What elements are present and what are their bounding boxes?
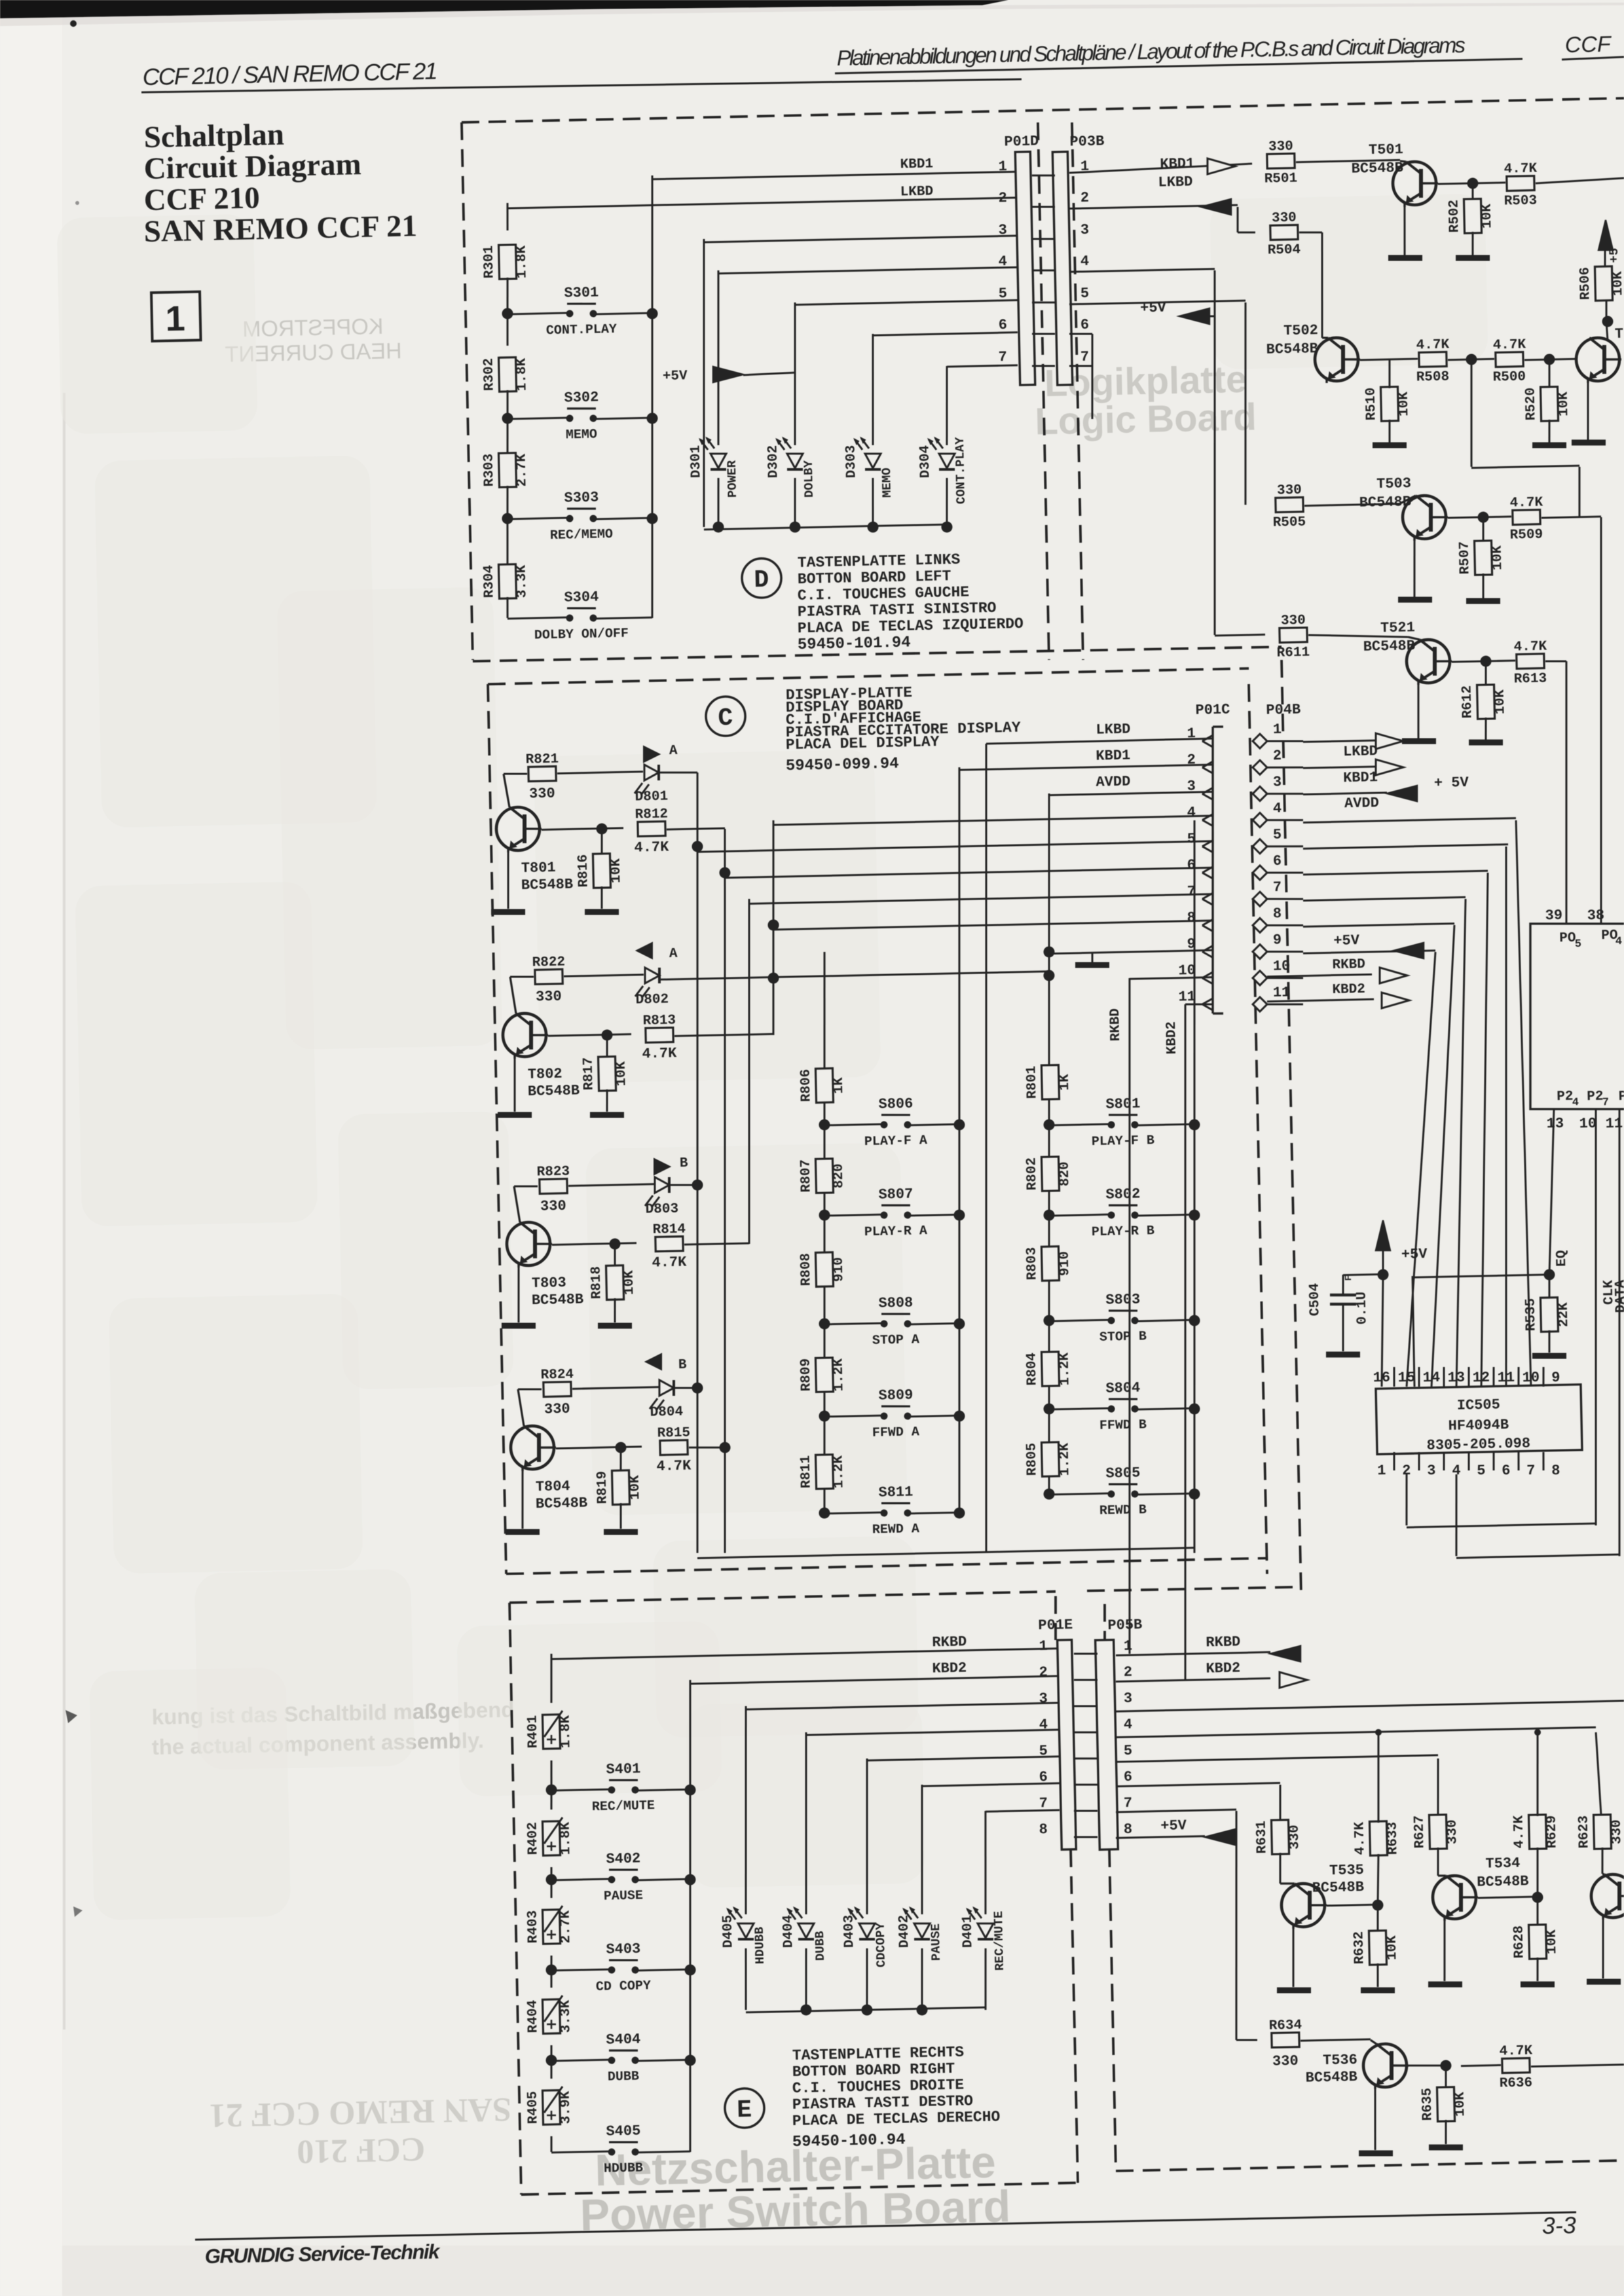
svg-text:Circuit Diagram: Circuit Diagram [143, 147, 361, 186]
svg-text:7: 7 [1080, 349, 1090, 365]
ground T803 [502, 1325, 536, 1326]
led arrow A left [637, 943, 653, 959]
wire R509 right and down to pin38 [1541, 517, 1601, 518]
wire R504 to T502 base [1299, 232, 1322, 232]
svg-text:R804: R804 [1025, 1353, 1041, 1386]
svg-text:1: 1 [998, 158, 1007, 175]
resistor R809 [815, 1358, 833, 1393]
svg-text:PLAY-F A: PLAY-F A [864, 1133, 927, 1150]
svg-text:S804: S804 [1105, 1379, 1140, 1396]
svg-text:DATA: DATA [1613, 1279, 1624, 1313]
node R510 junction [1466, 354, 1477, 365]
svg-text:LKBD: LKBD [1343, 743, 1378, 760]
wire R611 to T521 [1308, 633, 1408, 639]
svg-text:4.7K: 4.7K [634, 839, 669, 856]
svg-text:1.8K: 1.8K [515, 245, 530, 278]
svg-text:7: 7 [1124, 1795, 1133, 1812]
wire bottom bus C [697, 1548, 1194, 1558]
svg-text:R816: R816 [576, 854, 592, 888]
wire R634 to T536 [1301, 2039, 1371, 2041]
svg-text:330: 330 [1272, 2053, 1299, 2070]
resistor R628 [1537, 1897, 1538, 1926]
wire T503 emitter [1413, 537, 1416, 597]
svg-text:CONT.PLAY: CONT.PLAY [953, 437, 969, 505]
switch S806 [824, 1124, 881, 1125]
svg-text:R818: R818 [589, 1266, 604, 1300]
wire column v1144 [742, 899, 756, 1244]
resistor R632 [1377, 1905, 1378, 1932]
svg-text:4.7K: 4.7K [656, 1457, 692, 1474]
node S402 left [545, 1874, 557, 1885]
diode D405 [741, 1706, 750, 1914]
svg-text:8: 8 [1187, 909, 1196, 926]
wire T804 emitter [521, 1468, 524, 1529]
header rule right [835, 59, 1522, 73]
svg-text:R401: R401 [525, 1715, 541, 1749]
svg-text:4: 4 [998, 253, 1007, 270]
svg-text:MEMO: MEMO [566, 428, 597, 443]
wire pin7 [1069, 365, 1092, 366]
svg-text:D405: D405 [720, 1915, 736, 1948]
power +5V arrow IC505 [1375, 1220, 1390, 1251]
node S403 left [545, 1964, 557, 1975]
diode D303 [872, 478, 874, 527]
svg-text:10K: 10K [1545, 1929, 1560, 1955]
svg-text:R803: R803 [1024, 1247, 1040, 1281]
svg-text:T5: T5 [1615, 325, 1624, 342]
svg-text:T503: T503 [1376, 475, 1411, 492]
ground R818 [598, 1325, 632, 1326]
resistor R504 [1270, 225, 1298, 240]
node +5V junction [1377, 1269, 1388, 1280]
svg-text:DOLBY: DOLBY [802, 460, 817, 498]
resistor R507 [1483, 517, 1484, 542]
wire R503 to edge [1536, 178, 1624, 183]
svg-text:BC548B: BC548B [536, 1495, 588, 1512]
resistor R404 [551, 1970, 551, 1988]
header rule left [141, 74, 1022, 98]
svg-text:R805: R805 [1024, 1443, 1040, 1476]
svg-text:5: 5 [1039, 1743, 1048, 1759]
wire matrix A left bus [813, 952, 836, 1513]
svg-text:4: 4 [1273, 800, 1282, 816]
svg-text:LKBD: LKBD [900, 185, 934, 200]
svg-text:10: 10 [1522, 1370, 1540, 1387]
svg-text:S808: S808 [878, 1294, 913, 1311]
ghost pcb blobs [94, 456, 377, 828]
svg-text:59450-099.94: 59450-099.94 [786, 755, 899, 775]
ground R632 [1361, 1990, 1395, 1991]
svg-text:EQ: EQ [1555, 1250, 1570, 1267]
svg-text:R504: R504 [1267, 242, 1301, 258]
svg-text:HF4094B: HF4094B [1448, 1417, 1509, 1434]
wire P05B row8 +5V [1116, 1836, 1205, 1838]
svg-text:KBD2: KBD2 [932, 1660, 967, 1677]
resistor R818 [614, 1244, 615, 1267]
svg-text:FFWD B: FFWD B [1099, 1417, 1147, 1434]
svg-text:S809: S809 [878, 1387, 913, 1404]
wire D302 to pin5 [795, 300, 1018, 304]
resistor R801 [1041, 1065, 1059, 1100]
wire row7 [749, 894, 1213, 904]
wire T500 collector [1606, 321, 1608, 340]
svg-text:KOPFSTROM: KOPFSTROM [242, 314, 384, 342]
transistor T536 [1363, 2043, 1407, 2087]
svg-text:C: C [718, 704, 733, 733]
svg-text:2: 2 [1273, 748, 1282, 764]
svg-text:D802: D802 [635, 992, 669, 1008]
wire D301 to pin4 [718, 267, 1018, 274]
svg-text:S302: S302 [564, 389, 599, 406]
svg-text:5: 5 [1477, 1463, 1486, 1479]
node LKBD left bus wire [507, 203, 508, 230]
ground R612 [1469, 742, 1503, 743]
wire row11 KBD2 [1185, 1004, 1213, 1005]
svg-text:8: 8 [1551, 1463, 1560, 1479]
wire R301 to S301 [507, 278, 508, 314]
wire pin3 horizontal [704, 236, 1018, 242]
ground T500 [1572, 442, 1606, 443]
svg-text:10K: 10K [1490, 545, 1506, 571]
wire T521 emitter [1417, 681, 1420, 738]
svg-text:+5V: +5V [1333, 932, 1360, 949]
node S403 right [684, 1964, 695, 1975]
svg-text:R403: R403 [525, 1910, 541, 1944]
svg-text:BC548B: BC548B [1312, 1879, 1364, 1897]
svg-text:7: 7 [1526, 1463, 1536, 1479]
svg-text:1: 1 [1124, 1638, 1133, 1654]
node junction S301 right [646, 308, 657, 319]
transistor T801 [504, 774, 509, 807]
svg-text:10: 10 [1273, 958, 1291, 975]
svg-text:1: 1 [1039, 1638, 1048, 1654]
svg-text:5: 5 [1080, 285, 1090, 302]
svg-text:R507: R507 [1458, 541, 1473, 575]
wire T536 collector [1409, 2065, 1446, 2066]
svg-text:R633: R633 [1385, 1822, 1401, 1855]
wire matrix B right bus [1179, 820, 1210, 1553]
svg-text:1: 1 [1377, 1463, 1386, 1479]
ground T801 [491, 911, 525, 913]
svg-text:D403: D403 [841, 1915, 857, 1948]
wire P05B row3 [1116, 1701, 1624, 1711]
transistor T533 [1591, 1874, 1624, 1918]
node R818 top [609, 1238, 620, 1249]
resistor R405 [551, 2060, 551, 2079]
resistor R817 [606, 1035, 607, 1058]
wire pin2 LKBD to R504 [1069, 205, 1238, 208]
svg-text:9: 9 [1273, 932, 1282, 948]
svg-text:B: B [680, 1156, 688, 1171]
resistor R824 [518, 1389, 542, 1390]
svg-text:7: 7 [1039, 1795, 1048, 1812]
svg-text:RKBD: RKBD [932, 1633, 967, 1650]
svg-text:T804: T804 [536, 1478, 570, 1495]
svg-text:HDUBB: HDUBB [604, 2160, 643, 2176]
svg-text:330: 330 [1272, 211, 1297, 227]
resistor R535 [1549, 1275, 1550, 1299]
wire T533 emitter [1602, 1916, 1604, 1978]
arrow AVDD +5V [1387, 786, 1418, 802]
wire row9 [1049, 950, 1213, 953]
svg-text:4: 4 [1572, 1097, 1579, 1109]
resistor R816 [601, 829, 602, 855]
svg-text:11: 11 [1178, 989, 1196, 1006]
svg-text:4: 4 [1039, 1717, 1048, 1733]
svg-text:3: 3 [1273, 774, 1282, 790]
svg-text:2: 2 [1124, 1664, 1133, 1681]
arrow KBD2 right [1280, 1671, 1308, 1688]
svg-text:D304: D304 [917, 445, 933, 479]
wire row5 [697, 841, 1213, 852]
node junction S302 left [502, 412, 513, 424]
resistor R819 [620, 1448, 621, 1472]
wire pin5 to R505 [1069, 301, 1246, 304]
wire E led bottom bus [746, 2007, 986, 2013]
wire P05B row1 RKBD out [1116, 1652, 1270, 1656]
wire R301-R302 [507, 314, 508, 346]
ground T536 [1359, 2153, 1393, 2154]
svg-text:P05B: P05B [1107, 1616, 1142, 1633]
svg-text:BC548B: BC548B [528, 1082, 580, 1100]
svg-text:4: 4 [1080, 253, 1090, 270]
svg-text:R503: R503 [1504, 193, 1537, 209]
diode D802 [564, 975, 644, 977]
svg-text:38: 38 [1587, 907, 1604, 924]
svg-text:R505: R505 [1273, 515, 1306, 530]
svg-text:R813: R813 [642, 1013, 676, 1029]
resistor R302 [499, 357, 517, 392]
svg-text:910: 910 [1058, 1251, 1073, 1276]
svg-text:P04B: P04B [1266, 701, 1301, 718]
svg-text:CDCOPY: CDCOPY [874, 1922, 889, 1967]
dashed logic board bottom [1109, 1850, 1116, 2171]
svg-text:DUBB: DUBB [813, 1931, 828, 1961]
svg-text:59450-101.94: 59450-101.94 [798, 634, 911, 654]
scanner black edge top [0, 0, 1008, 18]
svg-text:10K: 10K [1385, 1935, 1401, 1961]
switch S803 [1049, 1320, 1109, 1321]
resistor R805 [1041, 1442, 1059, 1477]
svg-text:9: 9 [1551, 1370, 1560, 1386]
wire P05B row5 rail [1116, 1755, 1438, 1762]
resistor R508 [1419, 352, 1447, 367]
svg-text:R612: R612 [1460, 685, 1476, 719]
wire E led feeds [746, 1703, 1060, 1709]
svg-text:R303: R303 [481, 454, 497, 487]
svg-text:S404: S404 [606, 2031, 640, 2048]
resistor R803 [1041, 1247, 1059, 1281]
wire CLK [1587, 1109, 1605, 1525]
resistor R806 [815, 1068, 833, 1103]
wire T501 out node [1438, 183, 1505, 184]
svg-text:D804: D804 [650, 1405, 683, 1421]
svg-text:D303: D303 [844, 445, 860, 479]
svg-text:330: 330 [1445, 1819, 1461, 1844]
svg-text:S301: S301 [564, 284, 599, 301]
node junction S302 right [646, 412, 657, 424]
switch S807 [824, 1214, 881, 1216]
switch S801 [1049, 1124, 1109, 1125]
resistor R509 [1513, 510, 1540, 525]
svg-text:1.2K: 1.2K [831, 1455, 847, 1488]
svg-text:6: 6 [998, 317, 1007, 333]
switch S809 [824, 1415, 881, 1417]
svg-text:4.7K: 4.7K [1509, 496, 1543, 511]
svg-text:11: 11 [1605, 1116, 1623, 1133]
svg-text:59450-100.94: 59450-100.94 [792, 2131, 906, 2151]
transistor T501 [1392, 161, 1436, 205]
node T500 collector [1602, 316, 1613, 327]
svg-text:R500: R500 [1492, 370, 1526, 386]
svg-text:REC/MUTE: REC/MUTE [592, 1798, 655, 1815]
resistor R503 [1507, 176, 1534, 191]
svg-text:R812: R812 [635, 807, 668, 822]
svg-text:PLAY-R B: PLAY-R B [1092, 1224, 1154, 1240]
svg-text:1.2K: 1.2K [1058, 1442, 1073, 1476]
wire T802 emitter [513, 1055, 516, 1112]
wire R500 to T500 [1524, 359, 1576, 360]
svg-text:PLACA DEL DISPLAY: PLACA DEL DISPLAY [786, 733, 940, 754]
svg-text:5: 5 [1124, 1743, 1133, 1759]
svg-text:4.7K: 4.7K [1352, 1821, 1368, 1855]
led arrow A up [643, 746, 659, 762]
svg-text:11: 11 [1497, 1370, 1515, 1387]
svg-text:3: 3 [1080, 222, 1090, 238]
svg-text:F: F [1344, 1275, 1354, 1281]
svg-text:D404: D404 [781, 1915, 797, 1948]
wire column v1181 [769, 820, 778, 1035]
node R817 top [601, 1029, 612, 1040]
svg-text:REWD A: REWD A [872, 1522, 919, 1538]
wire pin3 down leg [698, 239, 710, 527]
svg-text:AVDD: AVDD [1344, 795, 1379, 812]
svg-text:4: 4 [1124, 1717, 1133, 1733]
svg-text:R302: R302 [482, 358, 498, 392]
svg-text:S405: S405 [606, 2123, 640, 2140]
wire R633 top to rail [1376, 1732, 1380, 1823]
connector P03B [1052, 152, 1072, 385]
svg-text:7: 7 [1602, 1097, 1610, 1109]
wire P05B row4 rail [1116, 1727, 1596, 1737]
diode D804 [572, 1387, 659, 1389]
resistor R823 [514, 1186, 538, 1186]
wire pin4 +5V feed [1069, 269, 1215, 272]
svg-text:10K: 10K [1480, 204, 1496, 229]
svg-text:14: 14 [1422, 1370, 1440, 1387]
svg-text:T534: T534 [1485, 1855, 1520, 1872]
svg-text:C504: C504 [1307, 1283, 1323, 1317]
ground pin10 stub [1091, 952, 1094, 962]
svg-text:3: 3 [998, 222, 1007, 238]
node EQ junction [1543, 1269, 1555, 1280]
svg-text:330: 330 [1268, 139, 1293, 155]
switch S301 [507, 313, 567, 314]
svg-text:P: P [1618, 1089, 1624, 1104]
wire pin6 down [1069, 333, 1092, 334]
svg-text:6: 6 [1187, 857, 1196, 873]
switch S808 [824, 1323, 881, 1324]
resistor R506 [1606, 301, 1606, 321]
svg-text:10K: 10K [628, 1475, 644, 1501]
transistor T502 [1314, 337, 1358, 381]
ground T804 [506, 1531, 540, 1533]
wire R627 to T534 base [1437, 1848, 1439, 1876]
dashed board D box [462, 122, 473, 660]
wire T536 emitter [1374, 2086, 1376, 2150]
svg-text:2: 2 [1080, 190, 1090, 206]
svg-text:4: 4 [1615, 936, 1623, 948]
transistor T804 [518, 1389, 524, 1426]
node S404 left [545, 2054, 557, 2066]
svg-text:T501: T501 [1369, 141, 1403, 158]
wire T802 base row [548, 1034, 631, 1036]
svg-text:BC548B: BC548B [1305, 2069, 1357, 2086]
dashed logic board left lower [1282, 660, 1301, 1596]
ghost bleedthrough CCF210 rotated [209, 2090, 513, 2172]
svg-text:330: 330 [544, 1401, 570, 1418]
wire T535 emitter [1292, 1925, 1295, 1987]
svg-text:S803: S803 [1105, 1291, 1140, 1308]
svg-text:2.7K: 2.7K [558, 1910, 574, 1943]
svg-text:PAUSE: PAUSE [929, 1923, 944, 1961]
resistor R520 [1549, 359, 1550, 388]
node T535 out [1372, 1899, 1383, 1910]
wire R508 to R500 [1448, 359, 1494, 359]
svg-text:R806: R806 [798, 1069, 814, 1102]
svg-text:R501: R501 [1264, 171, 1298, 187]
svg-text:S402: S402 [606, 1850, 640, 1867]
svg-text:5: 5 [1187, 831, 1196, 847]
svg-text:R304: R304 [481, 565, 497, 598]
svg-text:13: 13 [1546, 1116, 1564, 1133]
svg-text:RKBD: RKBD [1332, 957, 1365, 973]
wire column v1065 [681, 773, 714, 1553]
svg-text:D302: D302 [766, 445, 781, 479]
svg-text:A: A [669, 744, 678, 759]
svg-text:RKBD: RKBD [1108, 1008, 1124, 1042]
board circle C [705, 696, 745, 736]
arrow RKBD right [1270, 1646, 1301, 1662]
IC505 bottom wires [1405, 1474, 1407, 1525]
ground R535 [1532, 1355, 1566, 1357]
resistor R613 [1517, 654, 1544, 669]
svg-text:S303: S303 [564, 489, 599, 506]
svg-text:8: 8 [1124, 1821, 1133, 1838]
node S404 right [684, 2054, 695, 2066]
wire R501 to T501 [1296, 160, 1400, 162]
resistor R631 [1271, 1820, 1289, 1855]
resistor R402 [551, 1790, 551, 1810]
svg-text:10: 10 [1579, 1116, 1596, 1133]
svg-text:D301: D301 [688, 445, 704, 479]
wire DATA [1454, 1474, 1458, 1556]
resistor R304 [506, 519, 508, 566]
svg-text:PLAY-R A: PLAY-R A [864, 1224, 927, 1240]
svg-text:16: 16 [1373, 1370, 1390, 1387]
wire T502 collector out [1360, 359, 1418, 360]
svg-text:1.2K: 1.2K [1058, 1352, 1073, 1385]
svg-text:D402: D402 [896, 1915, 912, 1948]
svg-text:4.7K: 4.7K [642, 1045, 677, 1062]
diode D302 [794, 478, 796, 527]
svg-text:RKBD: RKBD [1206, 1633, 1240, 1650]
svg-text:10K: 10K [614, 1061, 630, 1087]
node T534 out [1532, 1891, 1543, 1903]
svg-text:R824: R824 [540, 1368, 574, 1383]
resistor R813 [646, 1028, 673, 1043]
svg-text:2.7K: 2.7K [514, 453, 530, 486]
